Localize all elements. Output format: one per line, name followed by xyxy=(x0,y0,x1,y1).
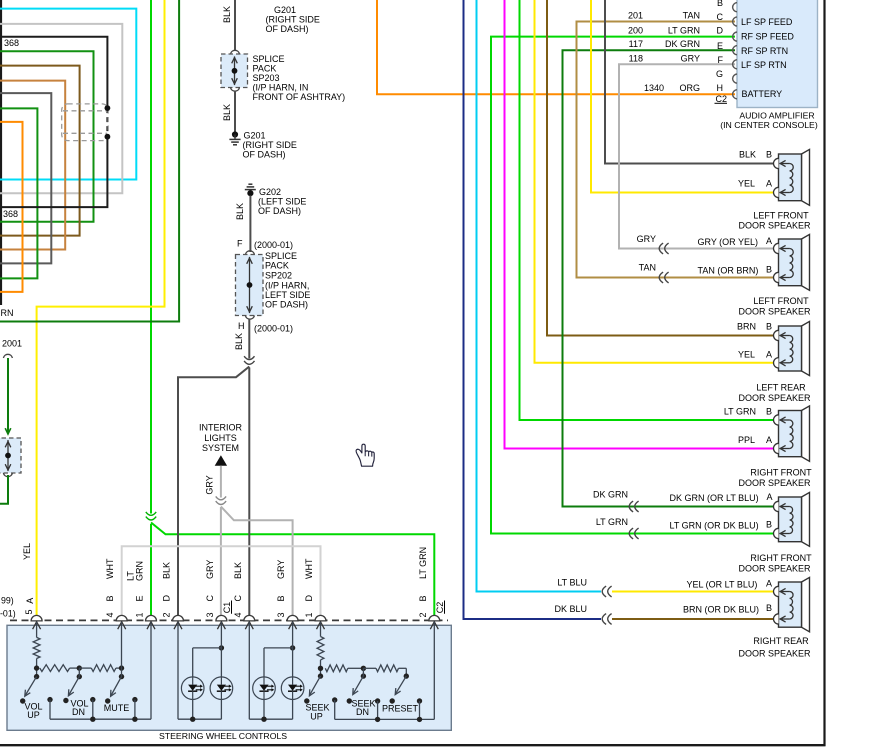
label SPLICE PACK SP202 xyxy=(265,251,310,310)
wire brown harness loop xyxy=(0,66,80,236)
wire BLK vertical to left front speaker pin B xyxy=(605,0,773,164)
svg-text:BLK: BLK xyxy=(162,562,172,579)
steering wheel controls module box xyxy=(7,625,451,730)
label BLK (rotated) xyxy=(235,203,245,220)
svg-text:B: B xyxy=(766,603,772,613)
svg-text:INTERIOR: INTERIOR xyxy=(199,423,243,433)
svg-text:B: B xyxy=(766,520,772,530)
svg-text:TAN: TAN xyxy=(639,262,656,272)
svg-text:A: A xyxy=(766,492,772,502)
svg-text:368: 368 xyxy=(4,38,19,48)
svg-text:(RIGHT SIDE: (RIGHT SIDE xyxy=(243,140,297,150)
wire YEL (OR LT BLU) to right rear speaker pin A xyxy=(612,591,773,593)
svg-text:DK BLU: DK BLU xyxy=(554,604,587,614)
wire GRY (OR YEL) to left front speaker pin A xyxy=(658,248,773,250)
svg-text:GRY: GRY xyxy=(276,560,286,579)
speaker left rear door xyxy=(773,321,809,375)
svg-text:-01): -01) xyxy=(0,609,16,619)
LED lamp 4 xyxy=(281,677,304,700)
svg-text:RIGHT REAR: RIGHT REAR xyxy=(753,636,809,646)
label DOOR SPEAKER xyxy=(738,563,811,573)
wire BRN vertical to left rear speaker pin B xyxy=(547,0,773,336)
speaker right front door (1) xyxy=(773,406,809,461)
svg-text:A: A xyxy=(25,598,35,604)
pin A/5 YEL labels xyxy=(0,543,35,619)
svg-text:C1: C1 xyxy=(222,602,232,614)
svg-text:DOOR SPEAKER: DOOR SPEAKER xyxy=(738,221,811,231)
label BLK (rotated) xyxy=(222,104,232,121)
svg-text:B: B xyxy=(418,595,428,601)
svg-text:118: 118 xyxy=(629,53,643,63)
wire LT GRN vertical to steering wheel pin E (with crossover hop) xyxy=(150,0,152,620)
wire pin D to resistor R4 xyxy=(320,622,322,637)
wire cyan harness loop xyxy=(0,9,136,180)
label VOL UP xyxy=(24,701,42,720)
label DOOR SPEAKER xyxy=(738,306,811,316)
switch common contacts to bus xyxy=(47,697,137,719)
svg-text:G201: G201 xyxy=(244,130,266,140)
common bus to pin E xyxy=(50,622,151,722)
svg-text:PACK: PACK xyxy=(253,63,277,73)
amplifier internal pin names xyxy=(741,17,794,99)
LED wires to bus xyxy=(261,622,292,722)
terminal arc at left splice bottom xyxy=(3,473,12,477)
in-line connector on LT GRN wire xyxy=(629,528,638,539)
wire diagram right border xyxy=(823,0,825,746)
wire green harness loop xyxy=(0,108,37,278)
splice pack (left, cut off) xyxy=(0,438,21,473)
crossover hop on BLK wire xyxy=(244,356,254,364)
svg-text:DK GRN (OR LT BLU): DK GRN (OR LT BLU) xyxy=(670,493,759,503)
label INTERIOR LIGHTS SYSTEM xyxy=(199,423,243,453)
svg-text:4: 4 xyxy=(233,612,243,617)
svg-text:2: 2 xyxy=(162,612,172,617)
wire PPL vertical to right front speaker pin A xyxy=(505,0,774,449)
label SEEK UP xyxy=(305,703,329,722)
switch SEEK DN xyxy=(347,676,364,704)
wire BLK from SP202 down (with crossover hop) xyxy=(248,319,250,620)
label TAN / TAN (OR BRN) pin B xyxy=(639,262,772,275)
svg-text:C2: C2 xyxy=(435,602,445,614)
label YEL pin A (left rear speaker) xyxy=(738,350,772,360)
terminal arc at SP203 top xyxy=(231,50,240,54)
label BRN pin B (left rear speaker) xyxy=(737,322,772,332)
svg-text:GRN: GRN xyxy=(135,561,145,581)
svg-text:PRESET: PRESET xyxy=(382,703,419,713)
svg-text:BLK: BLK xyxy=(235,203,245,220)
node 5 junctions xyxy=(361,666,366,679)
pin F label with year note xyxy=(237,239,293,251)
label AUDIO AMPLIFIER (IN CENTER CONSOLE) xyxy=(720,110,818,130)
svg-text:B: B xyxy=(766,407,772,417)
svg-text:DN: DN xyxy=(356,707,369,717)
svg-text:UP: UP xyxy=(310,711,323,721)
label GRY (rotated) xyxy=(205,475,215,494)
wire YEL vertical to left rear speaker pin A xyxy=(535,0,774,363)
label RIGHT FRONT xyxy=(750,467,812,477)
svg-text:1340: 1340 xyxy=(644,83,664,93)
svg-text:GRY: GRY xyxy=(637,234,656,244)
svg-text:F: F xyxy=(718,55,724,65)
wire BLK branch to connector C1 pin D xyxy=(178,367,249,621)
svg-text:DOOR SPEAKER: DOOR SPEAKER xyxy=(738,393,811,403)
label LEFT FRONT xyxy=(753,296,809,306)
speaker left front door (2) xyxy=(773,234,809,290)
svg-text:1: 1 xyxy=(304,612,314,617)
node 4 junctions xyxy=(318,666,323,679)
svg-text:OF DASH): OF DASH) xyxy=(258,206,301,216)
switch VOL DN xyxy=(63,677,79,704)
resistor R5 (horizontal) xyxy=(325,665,363,672)
svg-text:YEL (OR LT BLU): YEL (OR LT BLU) xyxy=(687,579,758,589)
switch MUTE xyxy=(105,677,122,704)
svg-text:BLK: BLK xyxy=(222,6,232,23)
resistor R3 (horizontal) xyxy=(79,665,121,672)
wire branch to lamp 3 xyxy=(264,645,295,677)
svg-text:MUTE: MUTE xyxy=(104,703,130,713)
seek bus to pin B xyxy=(335,622,435,722)
pin C/4 BLK labels xyxy=(233,562,243,618)
wire GRY to interior lights (with crossover hop) xyxy=(220,466,222,620)
wire GRY 118 from amplifier pin F to left front speaker xyxy=(619,64,735,248)
label MUTE xyxy=(104,703,130,713)
ground G202 (inverted) xyxy=(245,184,256,196)
terminal arc at SP202 top xyxy=(245,251,254,255)
svg-text:2: 2 xyxy=(418,612,428,617)
label G202 (left side of dash) xyxy=(258,187,306,216)
value label 368 (top) xyxy=(4,38,19,48)
wire LT GRN vertical to right front speaker pin B xyxy=(520,0,774,420)
svg-text:A: A xyxy=(766,435,772,445)
svg-text:LF SP RTN: LF SP RTN xyxy=(741,60,787,70)
pin D/2 BLK labels xyxy=(162,562,172,618)
label LEFT REAR xyxy=(756,382,806,392)
svg-text:DK GRN: DK GRN xyxy=(593,490,628,500)
svg-text:RIGHT FRONT: RIGHT FRONT xyxy=(750,467,812,477)
wire YEL vertical to steering wheel pin A xyxy=(37,0,165,620)
in-line connector on LT BLU / YEL wire xyxy=(602,586,611,597)
svg-text:GRY: GRY xyxy=(205,475,215,494)
svg-text:F: F xyxy=(237,239,243,249)
wire BLK from above into splice pack SP203 xyxy=(234,0,236,51)
switch PRESET xyxy=(390,676,407,704)
svg-text:4: 4 xyxy=(105,612,115,617)
svg-text:D: D xyxy=(162,595,172,602)
svg-text:B: B xyxy=(766,264,772,274)
crossover hop on GRY wire xyxy=(216,496,226,504)
label G201 (right side of dash) xyxy=(243,130,297,159)
connector pin terminal bumps xyxy=(31,615,440,621)
resistor R1 (vertical) xyxy=(33,637,40,658)
wire GRY branch to connector C2 pin B xyxy=(221,507,293,621)
in-line connector on DK GRN wire xyxy=(629,501,638,512)
terminal arc at SP203 bottom xyxy=(231,88,240,92)
label PRESET xyxy=(382,703,419,713)
wire orange harness loop xyxy=(0,122,23,292)
resistor R6 (horizontal) xyxy=(363,665,406,672)
label SEEK DN xyxy=(351,698,375,717)
wire BLK from SP203 to ground G201 xyxy=(234,91,236,132)
svg-text:BLK: BLK xyxy=(222,104,232,121)
arrowhead on DK GRN wire xyxy=(5,428,11,434)
wire DK GRN (OR LT BLU) to right front speaker pin A xyxy=(628,506,773,508)
ground G201 xyxy=(229,131,240,144)
wire DK GRN exiting left xyxy=(0,475,8,504)
svg-text:LEFT FRONT: LEFT FRONT xyxy=(753,211,809,221)
wire pin to LED bus xyxy=(249,622,292,720)
wire dk gray harness loop xyxy=(0,93,51,263)
label BLK (rotated) xyxy=(222,6,232,23)
svg-text:LT GRN: LT GRN xyxy=(668,25,700,35)
wire pin A to resistor R1 xyxy=(36,622,38,638)
svg-text:RF SP FEED: RF SP FEED xyxy=(741,32,794,42)
circuit number and color labels at amplifier xyxy=(628,10,700,93)
switch SEEK UP xyxy=(304,676,320,704)
svg-text:B: B xyxy=(717,0,723,8)
svg-text:D: D xyxy=(304,595,314,602)
svg-text:A: A xyxy=(766,179,772,189)
svg-text:DOOR SPEAKER: DOOR SPEAKER xyxy=(738,648,811,658)
svg-text:(I/P HARN,: (I/P HARN, xyxy=(265,281,309,291)
svg-text:LT BLU: LT BLU xyxy=(557,577,587,587)
value label 368 (bottom) xyxy=(3,209,18,219)
svg-text:AUDIO AMPLIFIER: AUDIO AMPLIFIER xyxy=(739,110,814,120)
node 1 junctions xyxy=(34,665,39,679)
svg-text:LEFT FRONT: LEFT FRONT xyxy=(753,296,809,306)
label SPLICE PACK SP203 xyxy=(253,54,346,102)
wire ORG 1340 from top edge to amplifier pin H xyxy=(377,0,735,94)
svg-text:ORG: ORG xyxy=(679,83,700,93)
wire LT BLU vertical to right rear speaker xyxy=(477,0,602,592)
svg-text:OF DASH): OF DASH) xyxy=(243,150,286,160)
svg-text:(IN CENTER CONSOLE): (IN CENTER CONSOLE) xyxy=(720,120,818,130)
label VOL DN xyxy=(70,698,88,717)
svg-text:FRONT OF ASHTRAY): FRONT OF ASHTRAY) xyxy=(253,92,346,102)
wire WHT jumper between pins B and D xyxy=(122,546,321,620)
in-line connector (ghost, dashed) on wire 368 xyxy=(62,104,108,141)
svg-text:368: 368 xyxy=(3,209,18,219)
wire LT GRN (OR DK BLU) to right front speaker pin B xyxy=(628,533,773,535)
wire LT GRN branch to connector C2 pin B xyxy=(151,523,434,621)
label YEL pin A (left front speaker) xyxy=(738,179,772,189)
wire BRN (OR DK BLU) to right rear speaker pin B xyxy=(612,618,773,620)
svg-text:A: A xyxy=(766,236,772,246)
svg-text:GRY (OR YEL): GRY (OR YEL) xyxy=(698,237,759,247)
wire TAN (OR BRN) to left front speaker pin B xyxy=(658,277,773,279)
node 6 junction xyxy=(404,668,409,679)
label BLK (rotated) xyxy=(234,333,244,350)
splice pack SP203 xyxy=(221,54,248,88)
svg-text:SP203: SP203 xyxy=(253,73,280,83)
wire diagram left border xyxy=(0,0,2,305)
svg-text:G201: G201 xyxy=(274,5,296,15)
LED lamp 3 xyxy=(253,677,276,700)
svg-text:YEL: YEL xyxy=(738,179,755,189)
speaker right front door (2) xyxy=(773,492,809,546)
seek common contacts to bus xyxy=(332,697,422,719)
svg-text:DOOR SPEAKER: DOOR SPEAKER xyxy=(738,306,811,316)
label LT BLU / YEL (OR LT BLU) pin A xyxy=(557,577,772,589)
svg-text:BLK: BLK xyxy=(233,562,243,579)
speaker right rear door xyxy=(773,577,809,631)
label RIGHT REAR xyxy=(753,636,809,646)
pin entry arrows xyxy=(33,622,439,630)
svg-text:SP202: SP202 xyxy=(265,271,292,281)
amplifier pin letters B C D E F G H and C2 xyxy=(715,0,728,104)
mouse cursor (hand pointer) xyxy=(356,444,374,466)
in-line connector on TAN wire xyxy=(659,272,668,283)
label RIGHT FRONT xyxy=(750,553,812,563)
svg-text:BLK: BLK xyxy=(739,150,756,160)
svg-text:YEL: YEL xyxy=(738,350,755,360)
terminal arc at left splice top xyxy=(3,354,12,358)
svg-text:LIGHTS: LIGHTS xyxy=(204,433,237,443)
svg-text:LT GRN (OR DK BLU): LT GRN (OR DK BLU) xyxy=(670,521,759,531)
svg-text:C: C xyxy=(717,12,724,22)
svg-text:E: E xyxy=(717,41,723,51)
amplifier pin terminal arcs xyxy=(733,3,737,99)
svg-text:(LEFT SIDE: (LEFT SIDE xyxy=(258,197,306,207)
label RN (cut off DK GRN) xyxy=(1,308,14,318)
svg-text:PACK: PACK xyxy=(265,261,289,271)
svg-text:(RIGHT SIDE: (RIGHT SIDE xyxy=(266,15,320,25)
label GRY / GRY (OR YEL) pin A xyxy=(637,234,772,247)
svg-text:A: A xyxy=(766,578,772,588)
svg-text:YEL: YEL xyxy=(22,543,32,560)
label DOOR SPEAKER xyxy=(738,478,811,488)
LED lamp 2 xyxy=(210,677,233,700)
svg-text:G: G xyxy=(716,69,723,79)
svg-text:2001: 2001 xyxy=(2,339,22,349)
svg-text:DOOR SPEAKER: DOOR SPEAKER xyxy=(738,478,811,488)
svg-text:A: A xyxy=(766,350,772,360)
svg-text:99): 99) xyxy=(1,596,14,606)
svg-text:RN: RN xyxy=(1,308,14,318)
svg-text:1: 1 xyxy=(135,612,145,617)
svg-text:RF SP RTN: RF SP RTN xyxy=(741,46,788,56)
wire DK BLU vertical to right rear speaker xyxy=(464,0,602,619)
label DK GRN / DK GRN (OR LT BLU) pin A xyxy=(593,490,773,503)
svg-text:(2000-01): (2000-01) xyxy=(254,240,293,250)
wire BLK from G202 to splice pack SP202 xyxy=(249,196,251,253)
switch VOL UP xyxy=(20,677,37,704)
wire black circuit 368 loop xyxy=(0,37,107,207)
svg-text:C: C xyxy=(233,595,243,602)
label BLK pin B (left front speaker) xyxy=(739,150,772,160)
svg-text:3: 3 xyxy=(205,612,215,617)
pin B/4 WHT labels xyxy=(105,558,115,617)
svg-text:OF DASH): OF DASH) xyxy=(266,24,309,34)
svg-text:GRY: GRY xyxy=(205,560,215,579)
label LEFT FRONT xyxy=(753,211,809,221)
svg-text:UP: UP xyxy=(27,710,40,720)
node 3 junctions, wire up to pin B xyxy=(119,622,124,680)
label G201 (right side of dash), top xyxy=(266,5,320,34)
svg-text:LF SP FEED: LF SP FEED xyxy=(741,17,793,27)
crossover hop on LT GRN wire xyxy=(146,512,156,520)
svg-text:SYSTEM: SYSTEM xyxy=(202,443,239,453)
svg-text:RIGHT FRONT: RIGHT FRONT xyxy=(750,553,812,563)
svg-text:5: 5 xyxy=(24,609,34,614)
wire green harness loop xyxy=(0,51,94,221)
svg-text:(2000-01): (2000-01) xyxy=(254,324,293,334)
svg-text:117: 117 xyxy=(629,39,643,49)
pin C/3 GRY labels + C1 xyxy=(205,560,232,618)
resistor R2 (horizontal) xyxy=(40,665,80,672)
wire R1 to node 1 xyxy=(36,659,38,677)
wire R4 to node 4 xyxy=(320,660,322,676)
svg-text:B: B xyxy=(105,595,115,601)
svg-text:GRY: GRY xyxy=(681,53,700,63)
svg-text:TAN: TAN xyxy=(683,10,700,20)
svg-text:H: H xyxy=(238,321,245,331)
svg-text:C2: C2 xyxy=(715,94,727,104)
wire pin to LED bus xyxy=(178,622,221,720)
connector line C1 / C2 (dashed) xyxy=(10,619,448,621)
wire DK GRN 117 from amplifier pin E to right front speaker xyxy=(563,50,736,506)
wire DK GRN horizontal exiting left xyxy=(0,0,179,322)
LED wires to bus xyxy=(190,622,221,722)
svg-text:BRN (OR DK BLU): BRN (OR DK BLU) xyxy=(683,605,759,615)
svg-text:LT GRN: LT GRN xyxy=(724,407,756,417)
wire tan harness loop xyxy=(0,81,65,250)
svg-text:DK GRN: DK GRN xyxy=(665,39,700,49)
svg-text:C: C xyxy=(205,595,215,602)
pin H label with year note xyxy=(238,321,293,334)
svg-text:LT GRN: LT GRN xyxy=(596,517,628,527)
wire diagram bottom border xyxy=(0,744,826,746)
svg-text:TAN (OR BRN): TAN (OR BRN) xyxy=(698,265,759,275)
svg-text:201: 201 xyxy=(628,10,643,20)
label DOOR SPEAKER xyxy=(738,393,811,403)
svg-text:LT GRN: LT GRN xyxy=(418,547,428,579)
label STEERING WHEEL CONTROLS xyxy=(159,731,287,741)
svg-text:BATTERY: BATTERY xyxy=(742,89,783,99)
svg-text:SPLICE: SPLICE xyxy=(265,251,297,261)
terminal arc at SP202 bottom xyxy=(245,316,254,320)
node 2 junctions xyxy=(77,665,82,679)
svg-text:BLK: BLK xyxy=(234,333,244,350)
svg-text:E: E xyxy=(135,595,145,601)
pin B/2 LT GRN labels + C2 xyxy=(418,547,445,618)
connector C2 of audio amplifier (in center console) xyxy=(737,0,818,108)
label 2001 (cut-off connector name) xyxy=(2,339,22,349)
svg-text:LEFT REAR: LEFT REAR xyxy=(756,382,806,392)
svg-text:OF DASH): OF DASH) xyxy=(265,300,308,310)
label DK BLU / BRN (OR DK BLU) pin B xyxy=(554,603,772,615)
wire TAN 201 from amplifier pin C to left front speaker xyxy=(577,22,736,278)
label DOOR SPEAKER xyxy=(738,648,811,658)
wire DK GRN into left splice xyxy=(7,358,9,432)
svg-text:B: B xyxy=(276,595,286,601)
svg-text:200: 200 xyxy=(628,25,643,35)
svg-text:D: D xyxy=(717,26,724,36)
svg-text:DN: DN xyxy=(72,707,85,717)
wire YEL vertical to left front speaker pin A xyxy=(591,0,773,193)
svg-text:WHT: WHT xyxy=(304,558,314,579)
arrow to interior lights system xyxy=(215,455,227,466)
svg-text:STEERING WHEEL CONTROLS: STEERING WHEEL CONTROLS xyxy=(159,731,287,741)
in-line connector on DK BLU / BRN wire xyxy=(602,614,611,625)
speaker left front door (1) xyxy=(773,149,809,205)
junction dots on wire 368 at ghost connector xyxy=(105,105,111,139)
pin B/3 GRY labels xyxy=(276,560,286,618)
svg-text:B: B xyxy=(766,150,772,160)
wire branch to lamp 1 xyxy=(193,645,224,677)
pin E/1 LT GRN labels xyxy=(126,561,145,618)
svg-text:PPL: PPL xyxy=(738,435,755,445)
svg-text:LEFT SIDE: LEFT SIDE xyxy=(265,290,310,300)
